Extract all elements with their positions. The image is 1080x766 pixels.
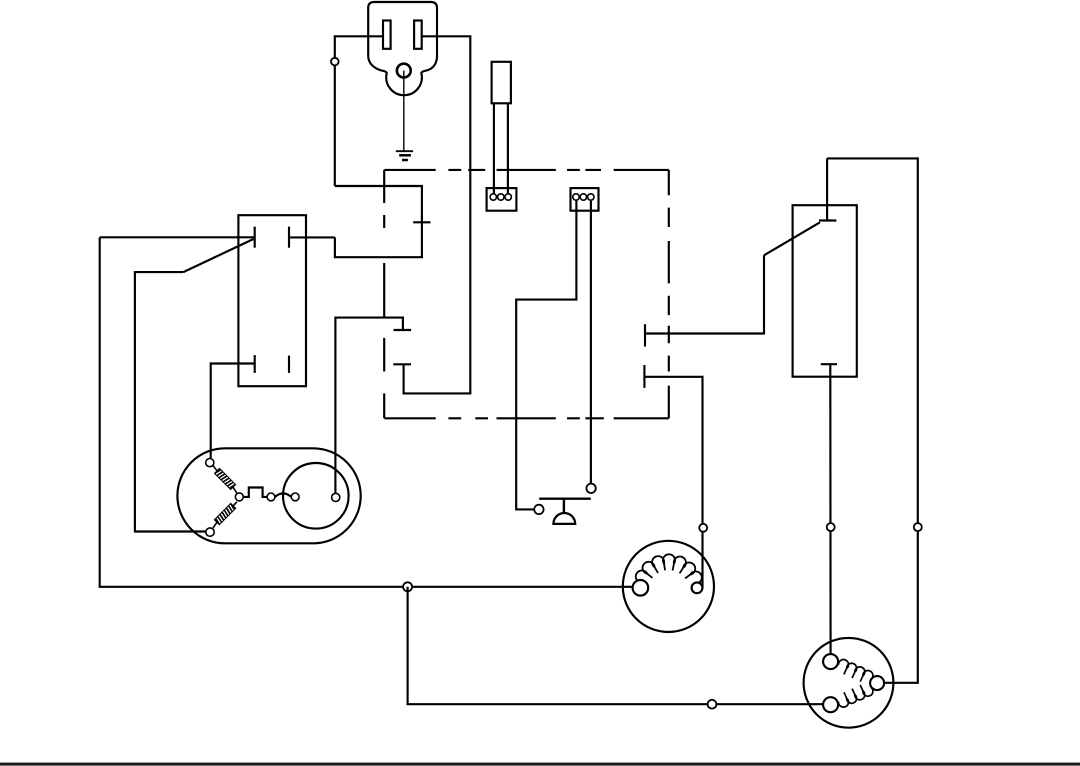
- SW2 top contact bar: [819, 219, 836, 221]
- overload protector: [243, 488, 267, 497]
- connector on bottom run: [708, 700, 717, 709]
- fan motor terminal left: [633, 580, 649, 596]
- TB1 pin 3: [505, 194, 511, 200]
- SW1 wire to top-left terminal: [100, 236, 255, 238]
- compressor terminal bottom-left: [206, 528, 214, 536]
- compressor start winding: [213, 502, 237, 528]
- condenser motor terminal right: [870, 676, 884, 690]
- condenser motor terminal top-left: [823, 654, 838, 669]
- fan switch contact lower: [643, 365, 645, 388]
- connector on fan motor wire: [699, 524, 707, 532]
- overload contact circle: [267, 493, 275, 501]
- control box boundary left edge (dashed): [383, 170, 385, 418]
- TB1 pin 1: [490, 194, 496, 200]
- condenser motor terminal bottom-left: [823, 697, 838, 712]
- wire junction down to bottom run: [408, 587, 831, 704]
- page footer rule: [0, 763, 1080, 766]
- connector on L1 wire: [331, 58, 339, 66]
- compressor terminal top-left: [206, 459, 214, 467]
- SW2 top terminal: [826, 158, 828, 220]
- TB2 wire pin1 to humidistat: [516, 197, 576, 509]
- relay contact arc: [275, 493, 291, 497]
- wire relay terminal to thermostat switch: [335, 318, 403, 497]
- wire N from plug right slot: [404, 36, 471, 393]
- plug left blade slot: [383, 21, 391, 49]
- fan motor winding: [636, 554, 702, 583]
- fan motor terminal right: [692, 582, 703, 593]
- ground lead: [403, 71, 405, 152]
- fan motor circle: [623, 541, 714, 632]
- compressor run winding: [213, 465, 237, 493]
- humidistat bellows dome: [553, 513, 575, 524]
- start relay coil circle: [283, 463, 349, 529]
- fan switch contact upper: [644, 324, 646, 346]
- control box boundary right edge (dashed): [668, 170, 670, 418]
- SW1 terminal bottom-left: [254, 355, 256, 373]
- TB2 wire pin3 to humidistat: [590, 197, 592, 488]
- relay terminal circle: [332, 493, 340, 501]
- thermostat switch contact upper: [394, 329, 412, 331]
- humidistat contact left: [534, 505, 543, 514]
- condenser motor winding top: [838, 660, 872, 682]
- SW1 terminal top-right: [288, 227, 290, 248]
- humidistat stem: [563, 499, 565, 514]
- SW1 terminal bottom-right: [288, 356, 290, 373]
- selector switch box SW1: [238, 215, 306, 386]
- terminal block TB2: [571, 188, 599, 211]
- junction on common wire: [403, 582, 412, 591]
- thermal fuse lead right: [507, 103, 509, 194]
- SW2 bottom contact bar: [821, 363, 837, 365]
- SW1 terminal top-left: [254, 227, 256, 248]
- condenser motor circle: [804, 638, 894, 728]
- condenser motor winding bottom: [838, 685, 872, 707]
- wire SW1 bottom-left terminal to compressor run winding: [211, 364, 255, 463]
- SW1 wire from top-right terminal: [289, 236, 335, 238]
- ground symbol: [396, 151, 413, 160]
- connector on SW2 motor wire: [827, 523, 835, 531]
- power plug receptacle outline: [368, 2, 437, 95]
- terminal block TB1: [487, 188, 517, 211]
- left side wire to common: [100, 237, 641, 587]
- top feeder wire: [827, 158, 918, 682]
- SW2 bottom terminal wire to motor: [829, 364, 831, 661]
- thermal fuse lead left: [493, 103, 495, 194]
- thermostat switch contact lower: [393, 363, 411, 365]
- TB2 pin 2: [580, 194, 586, 200]
- TB2 pin 1: [573, 194, 579, 200]
- fan switch wire upper: [645, 255, 764, 333]
- SW2 switch arm: [764, 222, 820, 255]
- TB1 pin 2: [498, 194, 504, 200]
- fan switch wire lower to fan motor: [644, 377, 702, 588]
- wire L1 to thermostat: [335, 186, 422, 257]
- control box boundary bottom edge (dashed): [384, 417, 669, 419]
- TB2 pin 3: [588, 194, 594, 200]
- humidistat plate: [539, 498, 591, 500]
- compressor common node: [235, 493, 243, 501]
- wire L1 from plug left slot: [335, 36, 386, 186]
- plug ground pin: [397, 64, 411, 78]
- wire from SW1 arm to compressor start winding: [135, 272, 210, 531]
- compressor shell: [177, 448, 360, 543]
- relay contact circle: [291, 493, 299, 501]
- plug right blade slot: [414, 21, 422, 49]
- humidistat contact right: [586, 484, 595, 493]
- SW1 switch arm: [183, 239, 253, 272]
- thermostat contact tick: [413, 221, 430, 223]
- control box boundary top edge (dashed): [384, 169, 669, 171]
- thermal fuse body: [492, 62, 511, 104]
- rotary switch SW2 box: [793, 205, 857, 377]
- connector on feeder wire: [914, 523, 922, 531]
